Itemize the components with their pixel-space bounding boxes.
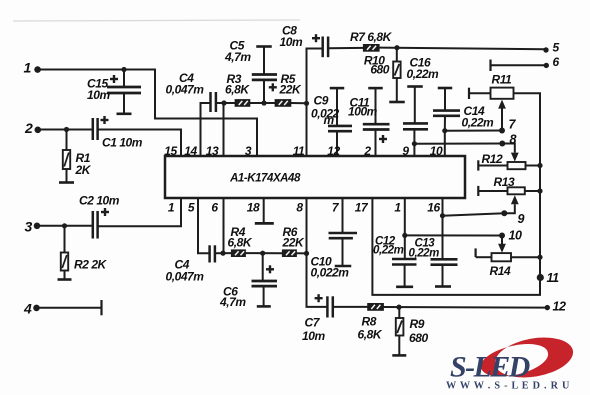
svg-text:12: 12 — [553, 299, 567, 313]
svg-text:3: 3 — [245, 144, 252, 158]
svg-text:5: 5 — [188, 200, 195, 214]
svg-text:R8: R8 — [362, 314, 377, 328]
svg-text:5: 5 — [553, 41, 560, 55]
svg-text:13: 13 — [206, 144, 219, 158]
svg-text:C7: C7 — [305, 315, 321, 329]
svg-text:8: 8 — [510, 132, 517, 146]
svg-text:3: 3 — [25, 218, 33, 234]
svg-text:680: 680 — [370, 62, 389, 76]
svg-text:10m: 10m — [280, 35, 303, 49]
svg-text:6: 6 — [553, 55, 560, 69]
svg-text:10: 10 — [509, 229, 523, 243]
svg-text:A1-K174XA48: A1-K174XA48 — [229, 173, 301, 185]
svg-text:100m: 100m — [348, 105, 378, 119]
svg-text:10m: 10m — [302, 329, 325, 343]
svg-text:2: 2 — [363, 144, 371, 158]
svg-text:0,22m: 0,22m — [407, 67, 440, 81]
svg-text:1: 1 — [168, 200, 175, 214]
svg-text:12: 12 — [327, 144, 340, 158]
svg-text:4,7m: 4,7m — [224, 50, 251, 64]
svg-text:22K: 22K — [279, 82, 302, 96]
svg-text:R2 2K: R2 2K — [74, 258, 108, 272]
svg-text:9: 9 — [402, 144, 409, 158]
svg-text:C1 10m: C1 10m — [102, 135, 143, 149]
svg-text:6,8K: 6,8K — [225, 82, 250, 96]
svg-text:10m: 10m — [87, 88, 110, 102]
svg-text:4,7m: 4,7m — [219, 295, 246, 309]
svg-text:11: 11 — [547, 271, 560, 285]
svg-text:R7 6,8K: R7 6,8K — [350, 30, 393, 44]
svg-text:14: 14 — [184, 144, 197, 158]
svg-text:0,22m: 0,22m — [409, 248, 440, 260]
svg-text:680: 680 — [409, 331, 428, 345]
svg-text:C2 10m: C2 10m — [79, 193, 120, 207]
svg-text:S-LED: S-LED — [450, 350, 530, 383]
svg-text:17: 17 — [355, 200, 369, 214]
svg-text:R13: R13 — [494, 175, 515, 189]
svg-text:0,047m: 0,047m — [166, 82, 205, 96]
svg-text:0,022m: 0,022m — [311, 265, 350, 279]
svg-text:6,8K: 6,8K — [228, 235, 253, 249]
svg-text:4: 4 — [23, 301, 32, 317]
svg-text:15: 15 — [164, 144, 177, 158]
svg-text:1: 1 — [24, 60, 32, 76]
svg-text:0,047m: 0,047m — [166, 269, 205, 283]
svg-text:9: 9 — [518, 212, 525, 226]
svg-text:2: 2 — [24, 120, 33, 136]
svg-text:R9: R9 — [410, 317, 425, 331]
svg-text:R14: R14 — [490, 264, 511, 278]
svg-text:6,8K: 6,8K — [358, 328, 383, 342]
svg-text:22K: 22K — [282, 235, 305, 249]
svg-text:0,22m: 0,22m — [373, 245, 404, 257]
svg-text:0,22m: 0,22m — [462, 115, 495, 129]
svg-text:16: 16 — [427, 200, 440, 214]
svg-text:R11: R11 — [492, 72, 513, 86]
svg-text:m: m — [324, 113, 335, 127]
svg-text:W W W . S - L E D . R U: W W W . S - L E D . R U — [446, 381, 570, 392]
svg-text:R12: R12 — [482, 152, 503, 166]
svg-text:8: 8 — [296, 200, 303, 214]
svg-text:10: 10 — [430, 144, 443, 158]
svg-text:1: 1 — [394, 200, 401, 214]
svg-text:11: 11 — [293, 144, 305, 158]
svg-text:2K: 2K — [75, 163, 92, 177]
svg-text:6: 6 — [211, 200, 218, 214]
svg-text:18: 18 — [247, 200, 260, 214]
